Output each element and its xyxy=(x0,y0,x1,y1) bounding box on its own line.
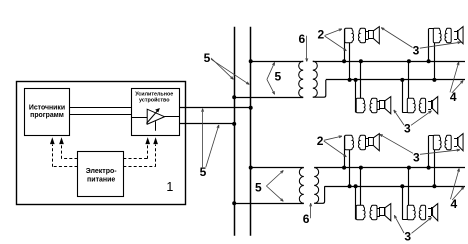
svg-text:устройство: устройство xyxy=(139,97,170,104)
svg-text:5: 5 xyxy=(255,181,262,195)
svg-text:6: 6 xyxy=(303,212,310,226)
svg-text:Источники: Источники xyxy=(29,105,65,112)
svg-text:5: 5 xyxy=(275,70,282,84)
svg-text:1: 1 xyxy=(166,180,173,194)
svg-text:6: 6 xyxy=(298,32,305,46)
svg-text:5: 5 xyxy=(204,51,211,65)
svg-text:Электро-: Электро- xyxy=(86,168,118,175)
svg-text:3: 3 xyxy=(404,230,411,244)
svg-text:2: 2 xyxy=(318,28,325,42)
svg-text:2: 2 xyxy=(317,134,324,148)
svg-text:программ: программ xyxy=(30,112,64,119)
svg-text:3: 3 xyxy=(413,44,420,58)
svg-text:3: 3 xyxy=(404,122,411,136)
svg-text:Усилительное: Усилительное xyxy=(135,91,173,97)
svg-text:4: 4 xyxy=(450,90,457,104)
svg-text:3: 3 xyxy=(413,150,420,164)
svg-text:питание: питание xyxy=(87,176,115,183)
svg-text:4: 4 xyxy=(450,197,457,211)
